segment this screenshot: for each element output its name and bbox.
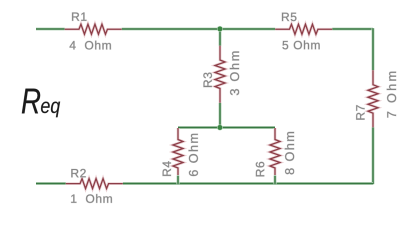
wire net N4 bottom segment [123, 182, 373, 185]
resistor R6 [270, 128, 280, 175]
label R7 value 7 Ohm [387, 72, 396, 118]
resistor R3 [215, 46, 225, 103]
wire net N4 stub below R4 [176, 176, 179, 185]
label R3 name [203, 73, 212, 87]
wire net N5 bottom-left segment [36, 182, 66, 185]
label R2 value 1 Ohm [71, 194, 112, 203]
wire net N2 vertical stub to R3 top pin [218, 29, 221, 46]
label R1 name [72, 13, 86, 21]
resistor R1 [65, 24, 122, 34]
label R1 value 4 Ohm [70, 41, 111, 50]
resistor R4 [173, 128, 183, 175]
wire net N3 right vertical upper segment [371, 28, 374, 70]
junction dot at node joining R1,R5,R3 (top) [217, 26, 223, 32]
wire net N3 top-right segment [332, 27, 373, 30]
resistor R7 [368, 70, 378, 127]
wire net N2 top-middle segment [122, 27, 276, 30]
label R7 name [356, 105, 364, 119]
label R2 name [71, 169, 85, 177]
label R5 value 5 Ohm [282, 41, 319, 50]
junction dot at node joining R3,R4,R6 (middle) [217, 125, 223, 131]
label R3 value 3 Ohm [230, 52, 239, 96]
label R4 name [163, 161, 171, 176]
resistor R2 [66, 179, 123, 189]
label R4 value 6 Ohm [189, 134, 198, 176]
label R5 name [282, 13, 296, 21]
wire net N6 vertical stub from R3 bottom pin [218, 103, 221, 128]
label R6 value 8 Ohm [285, 132, 294, 174]
label R6 name [256, 162, 265, 176]
resistor R5 [275, 24, 332, 34]
wire net N4 right vertical lower segment [371, 127, 374, 184]
wire net N6 middle horizontal segment [178, 126, 275, 129]
wire net N4 stub below R6 [273, 176, 276, 185]
node Req equivalent-resistance annotation [22, 89, 60, 118]
wire net N1 top-left segment [36, 27, 65, 30]
